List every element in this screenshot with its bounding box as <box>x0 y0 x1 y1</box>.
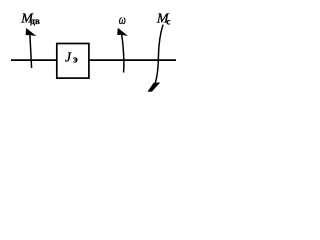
arrow M_dv torque arrow (up) <box>30 35 32 68</box>
wire shaft left segment <box>11 59 57 61</box>
arrow M_c load torque arrow (down) <box>155 25 163 83</box>
svg-text:дв: дв <box>30 16 40 26</box>
arrow omega speed arrow (up) <box>122 35 124 73</box>
wire shaft right segment <box>89 59 177 61</box>
svg-text:э: э <box>73 54 78 66</box>
svg-text:J: J <box>65 49 72 64</box>
svg-text:ω: ω <box>119 11 126 27</box>
block J1 equivalent inertia box <box>57 44 89 79</box>
svg-text:с: с <box>166 17 170 27</box>
